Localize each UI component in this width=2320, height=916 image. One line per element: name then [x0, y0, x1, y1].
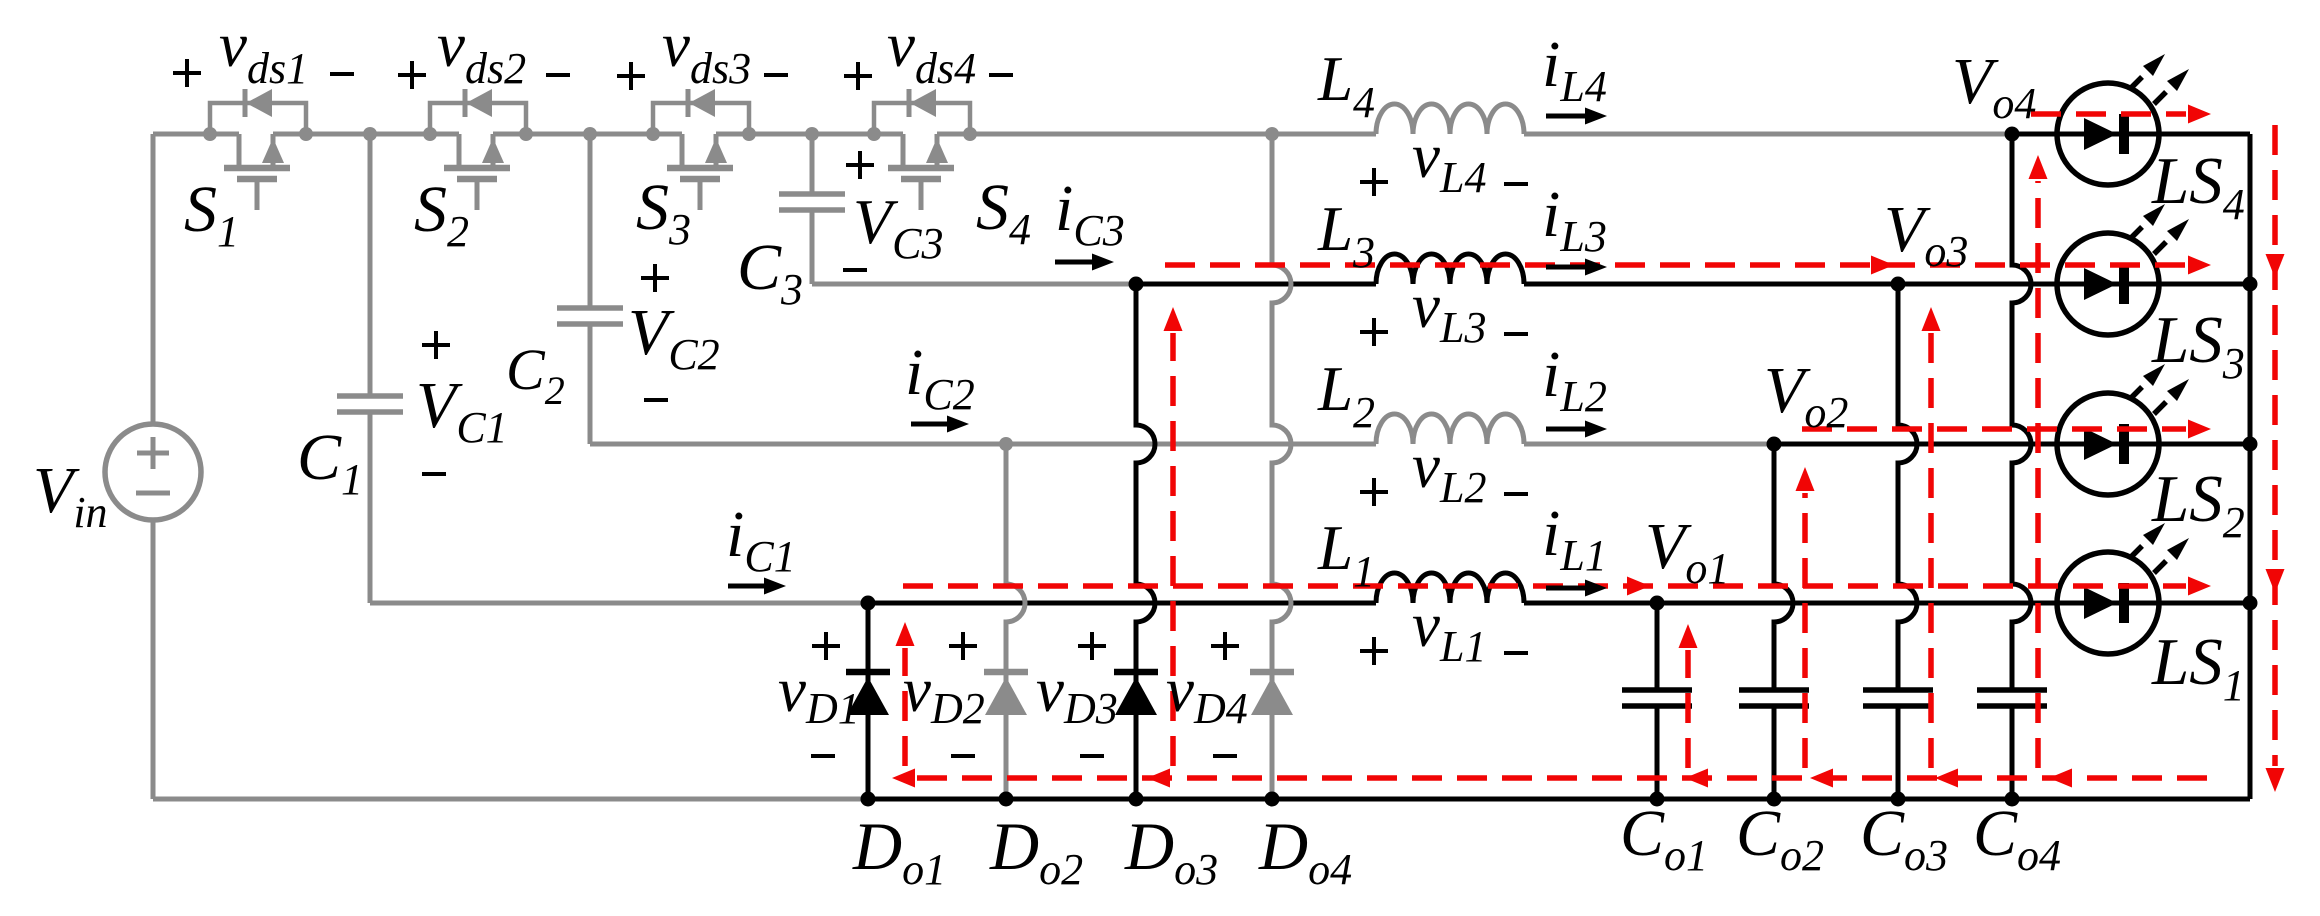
svg-text:vD3: vD3 [1036, 655, 1118, 733]
label vds1 plus [173, 59, 201, 87]
svg-text:iL4: iL4 [1542, 28, 1607, 111]
label C2 [506, 337, 565, 413]
svg-text:VC3: VC3 [853, 186, 943, 268]
node Vo1 [1650, 596, 1665, 611]
svg-text:vD1: vD1 [778, 655, 860, 733]
label S1 [184, 173, 239, 256]
diode Do4 [1250, 134, 1294, 799]
svg-text:C2: C2 [506, 337, 565, 413]
label vD2 minus [951, 754, 975, 758]
label VC1 minus [422, 472, 446, 476]
node dot C2 top [583, 127, 597, 141]
wire S3 source to S4 drain [716, 132, 903, 137]
label S4 [976, 171, 1031, 254]
svg-text:vD4: vD4 [1166, 655, 1248, 733]
label Do2 [989, 808, 1083, 894]
wire node D3 to L3 [1136, 282, 1376, 287]
label iC3 [1055, 172, 1125, 255]
arrow iC1 [728, 578, 786, 595]
node dot Do1 top [861, 596, 876, 611]
svg-text:vds4: vds4 [887, 10, 976, 93]
LED lamp LS3 [2057, 204, 2189, 335]
node dot bus x1136 [1129, 792, 1144, 807]
label Vo1 [1645, 510, 1729, 593]
arrow iL2 [1546, 421, 1607, 438]
red current path row1 [903, 577, 2211, 596]
node dot Do4 top [1265, 127, 1279, 141]
label VC3 plus [846, 151, 874, 179]
red current path Co4 up [2029, 155, 2048, 768]
node dot C3 top [805, 127, 819, 141]
svg-text:LS3: LS3 [2151, 303, 2245, 388]
label VC1 plus [422, 331, 450, 359]
inductor L3 [1376, 254, 1524, 284]
svg-text:L2: L2 [1317, 354, 1375, 437]
LED lamp LS1 [2057, 523, 2189, 654]
label vD2 plus [949, 632, 977, 660]
label VC2 [628, 296, 720, 379]
label L1 [1317, 513, 1375, 596]
wire L4 to node Vo4 [1524, 132, 2012, 137]
node dot bus x1657 [1650, 792, 1665, 807]
label vD4 plus [1211, 632, 1239, 660]
label vL1 minus [1504, 651, 1528, 655]
svg-text:iL1: iL1 [1542, 497, 1607, 580]
label Vo3 [1884, 193, 1968, 276]
label LS2 [2151, 462, 2245, 547]
svg-text:iC1: iC1 [726, 498, 796, 581]
node dot Do2 top [999, 437, 1013, 451]
wire node Vo4 to LS4 [2012, 132, 2250, 137]
LED lamp LS4 [2057, 54, 2189, 185]
svg-text:Vo3: Vo3 [1884, 193, 1968, 276]
label LS1 [2151, 625, 2245, 710]
wire L3 to LS3 row [1524, 282, 2250, 287]
svg-text:iC2: iC2 [905, 336, 975, 419]
label vD1 minus [811, 754, 835, 758]
label S2 [414, 173, 469, 256]
svg-text:vds2: vds2 [437, 10, 526, 93]
wire L2 to node Vo2 [1524, 442, 1774, 447]
label vds3 plus [617, 62, 645, 90]
label Co4 [1973, 797, 2061, 880]
node dot bus x1898 [1891, 792, 1906, 807]
wire top rail from Vin to S1 [153, 132, 239, 137]
svg-text:Do3: Do3 [1124, 808, 1218, 894]
label vD3 plus [1078, 632, 1106, 660]
capacitor C2 [557, 134, 623, 444]
label L3 [1317, 194, 1375, 277]
label vds2 minus [546, 73, 570, 77]
svg-text:S2: S2 [414, 173, 469, 256]
red current path Co2 up [1796, 467, 1815, 768]
label vL3 [1412, 271, 1486, 352]
label vL2 minus [1504, 492, 1528, 496]
svg-text:Co3: Co3 [1860, 797, 1948, 880]
diode Do3 [1114, 284, 1158, 799]
svg-text:Do1: Do1 [852, 808, 946, 894]
label Co1 [1620, 797, 1708, 880]
diode Do2 [984, 444, 1028, 799]
label vL3 minus [1504, 332, 1528, 336]
svg-text:iL3: iL3 [1542, 178, 1607, 261]
inductor L2 [1376, 414, 1524, 444]
LED lamp LS2 [2057, 364, 2189, 495]
wire L1 to LS1 row [1524, 601, 2250, 606]
capacitor C3 [779, 134, 845, 284]
diode Do1 [846, 603, 890, 799]
node dot rail row3 [2243, 277, 2258, 292]
label vds4 [887, 10, 976, 93]
label vL1 [1412, 590, 1486, 671]
node dot row3 D3 [1129, 277, 1144, 292]
label vL2 [1412, 431, 1486, 512]
wire C2 bottom to L2 [590, 442, 1376, 447]
label vL2 plus [1360, 478, 1388, 506]
capacitor Co2 [1739, 444, 1809, 799]
wire node Vo2 to LS2 [1774, 442, 2250, 447]
label iC2 [905, 336, 975, 419]
voltage source Vin [105, 134, 201, 799]
label LS3 [2151, 303, 2245, 388]
label iL1 [1542, 497, 1607, 580]
label L4 [1317, 44, 1375, 127]
arrow iC3 [1055, 254, 1114, 271]
label vD2 [903, 655, 985, 733]
label VC1 [416, 369, 508, 452]
label iL4 [1542, 28, 1607, 111]
red current path Co3 up [1922, 307, 1941, 768]
svg-text:S3: S3 [636, 171, 691, 254]
svg-text:vds1: vds1 [219, 10, 308, 93]
label iC1 [726, 498, 796, 581]
arrow iC2 [911, 416, 969, 433]
arrow iL3 [1546, 259, 1607, 276]
label iL2 [1542, 338, 1607, 421]
red current path row2 [1802, 420, 2211, 439]
label vL3 plus [1360, 318, 1388, 346]
red current path Do1 up [896, 622, 915, 766]
svg-text:iC3: iC3 [1055, 172, 1125, 255]
capacitor Co1 [1622, 603, 1692, 799]
label Co2 [1736, 797, 1824, 880]
node dot C1 top [363, 127, 377, 141]
svg-text:vD2: vD2 [903, 655, 985, 733]
label Do3 [1124, 808, 1218, 894]
svg-text:S4: S4 [976, 171, 1031, 254]
label Vin [33, 454, 108, 537]
svg-text:Co4: Co4 [1973, 797, 2061, 880]
svg-text:Vo1: Vo1 [1645, 510, 1729, 593]
wire C1 bottom to node Do1 [370, 601, 868, 606]
svg-text:Vin: Vin [33, 454, 108, 537]
wire ground bus black [868, 797, 2250, 802]
wire C3 bottom to node D3 [812, 282, 1136, 287]
label Vo2 [1764, 354, 1848, 437]
label vds3 [662, 10, 751, 93]
label vD1 [778, 655, 860, 733]
label vds4 plus [844, 62, 872, 90]
red current path Co1 up [1679, 624, 1698, 768]
label VC2 minus [644, 398, 668, 402]
label vds2 [437, 10, 526, 93]
svg-text:S1: S1 [184, 173, 239, 256]
red current path row4 [2031, 105, 2211, 124]
label vD1 plus [812, 632, 840, 660]
node dot bus x1272 [1265, 792, 1280, 807]
label vds3 minus [764, 73, 788, 77]
node dot bus x1006 [999, 792, 1014, 807]
transistor S1 [203, 89, 313, 210]
label vds4 minus [989, 73, 1013, 77]
wire S2 source to S3 drain [493, 132, 682, 137]
wire LED string right rail [2248, 134, 2253, 799]
svg-text:C1: C1 [297, 421, 363, 504]
node dot bus x1774 [1767, 792, 1782, 807]
svg-text:LS2: LS2 [2151, 462, 2245, 547]
red current path Do3 up [1164, 307, 1183, 766]
node Vo4 [2005, 127, 2020, 142]
wire ground bus gray [153, 797, 868, 802]
node dot rail row2 [2243, 437, 2258, 452]
label vds1 [219, 10, 308, 93]
label C3 [737, 231, 803, 314]
svg-text:iL2: iL2 [1542, 338, 1607, 421]
node dot rail row1 [2243, 596, 2258, 611]
wire S1 source to S2 drain [273, 132, 459, 137]
label vL4 [1412, 121, 1486, 202]
capacitor C1 [337, 134, 403, 603]
label VC2 plus [641, 264, 669, 292]
inductor L1 [1376, 573, 1524, 603]
label Vo4 [1952, 45, 2036, 128]
label vD4 minus [1213, 754, 1237, 758]
red current path bottom return [892, 769, 2211, 788]
label vds2 plus [398, 61, 426, 89]
svg-text:Co1: Co1 [1620, 797, 1708, 880]
label S3 [636, 171, 691, 254]
label vD4 [1166, 655, 1248, 733]
svg-text:vds3: vds3 [662, 10, 751, 93]
red current path row3 [1165, 256, 2211, 275]
svg-text:Vo2: Vo2 [1764, 354, 1848, 437]
node Vo2 [1767, 437, 1782, 452]
label Co3 [1860, 797, 1948, 880]
node Vo3 [1891, 277, 1906, 292]
svg-text:Vo4: Vo4 [1952, 45, 2036, 128]
label L2 [1317, 354, 1375, 437]
node dot bus x2012 [2005, 792, 2020, 807]
svg-text:Do4: Do4 [1258, 808, 1352, 894]
svg-text:VC1: VC1 [416, 369, 508, 452]
inductor L4 [1376, 104, 1524, 134]
svg-text:Do2: Do2 [989, 808, 1083, 894]
label vD3 minus [1080, 754, 1104, 758]
wire node Do1 to L1 [868, 601, 1376, 606]
label VC3 minus [843, 268, 867, 272]
svg-text:VC2: VC2 [628, 296, 720, 379]
capacitor Co3 [1863, 284, 1933, 799]
svg-text:LS1: LS1 [2151, 625, 2245, 710]
label VC3 [853, 186, 943, 268]
svg-text:C3: C3 [737, 231, 803, 314]
label vds1 minus [330, 72, 354, 76]
transistor S2 [423, 89, 533, 210]
red current path right side down [2266, 125, 2285, 792]
label vD3 [1036, 655, 1118, 733]
label LS4 [2151, 144, 2245, 229]
transistor S3 [646, 89, 756, 210]
svg-text:LS4: LS4 [2151, 144, 2245, 229]
arrow iL1 [1546, 580, 1607, 597]
transistor S4 [867, 89, 977, 210]
capacitor Co4 [1977, 134, 2047, 799]
svg-text:L4: L4 [1317, 44, 1375, 127]
label vL1 plus [1360, 637, 1388, 665]
arrow iL4 [1546, 108, 1607, 125]
label Do1 [852, 808, 946, 894]
label vL4 plus [1360, 168, 1388, 196]
label Do4 [1258, 808, 1352, 894]
node dot bus x868 [861, 792, 876, 807]
label iL3 [1542, 178, 1607, 261]
label C1 [297, 421, 363, 504]
svg-text:Co2: Co2 [1736, 797, 1824, 880]
wire S4 source to L4 [937, 132, 1376, 137]
label vL4 minus [1504, 182, 1528, 186]
